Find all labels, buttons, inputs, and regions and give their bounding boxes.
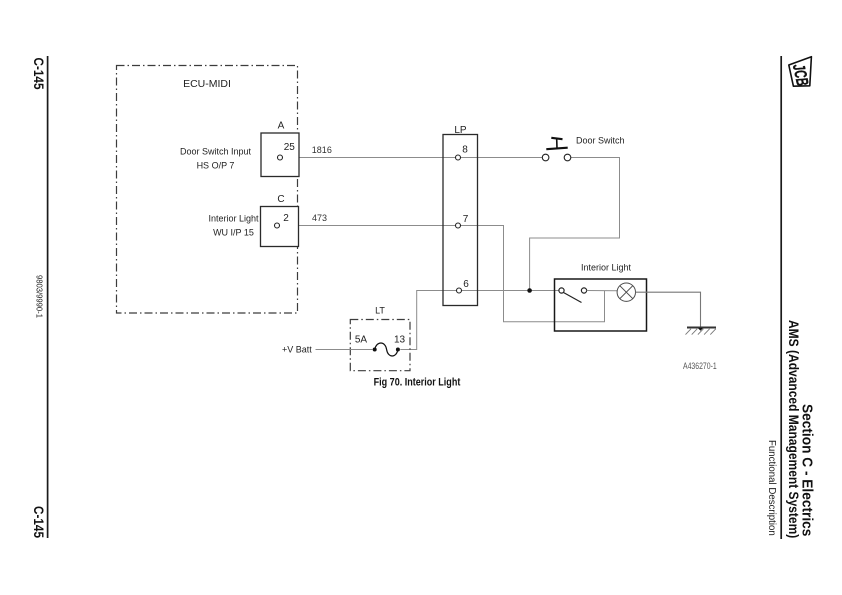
label Interior Light / WU I/P 15 bbox=[208, 214, 259, 238]
LP pin 6 terminal bbox=[457, 288, 462, 293]
wire door switch to junction (right, down, left, down) bbox=[530, 158, 620, 291]
svg-text:A: A bbox=[278, 121, 285, 132]
lamp bbox=[617, 283, 635, 301]
right border rule bbox=[780, 56, 782, 539]
svg-text:6: 6 bbox=[463, 279, 469, 290]
wire 1816 (pin 25 to LP pin 8) bbox=[283, 157, 455, 159]
label +V Batt bbox=[282, 345, 312, 355]
label C bbox=[277, 194, 284, 205]
svg-text:AMS (Advanced Management Syste: AMS (Advanced Management System) bbox=[786, 320, 802, 538]
pin label 8 bbox=[462, 145, 468, 156]
connector C box bbox=[261, 207, 299, 247]
svg-text:473: 473 bbox=[312, 213, 327, 223]
label Door Switch bbox=[576, 136, 625, 146]
pin 25 terminal bbox=[278, 155, 283, 160]
connector LP box bbox=[443, 135, 478, 306]
pin label 25 bbox=[284, 142, 296, 153]
svg-text:2: 2 bbox=[283, 213, 289, 224]
svg-text:C-145: C-145 bbox=[31, 58, 47, 90]
JCB logo bbox=[789, 57, 812, 88]
subtitle Functional Description bbox=[766, 440, 777, 536]
svg-text:Fig 70. Interior Light: Fig 70. Interior Light bbox=[374, 377, 461, 389]
Interior Light box bbox=[555, 279, 647, 331]
LT enclosure dash-dot box bbox=[350, 320, 410, 371]
fuse F 5A squiggle bbox=[373, 343, 400, 356]
LP pin 7 terminal bbox=[456, 223, 461, 228]
wire switch to lamp bbox=[587, 290, 618, 292]
wire label 1816 bbox=[312, 145, 332, 155]
interior light switch bbox=[559, 288, 587, 303]
svg-text:A436270-1: A436270-1 bbox=[683, 361, 717, 371]
svg-text:LT: LT bbox=[375, 306, 385, 316]
left border rule bbox=[47, 56, 49, 538]
label A bbox=[278, 121, 285, 132]
junction dot bbox=[527, 288, 532, 293]
section title Section C - Electrics bbox=[799, 404, 816, 536]
wire LP6 to interior light switch bbox=[462, 290, 559, 292]
label 5A bbox=[355, 334, 368, 345]
label ECU-MIDI bbox=[183, 78, 231, 90]
wire fuse pin13 up to LP pin 6 bbox=[400, 291, 456, 350]
page number C-145 bottom left bbox=[31, 506, 47, 538]
wire lamp to ground bbox=[636, 292, 701, 326]
svg-text:13: 13 bbox=[394, 334, 406, 345]
subtitle AMS (Advanced Management System) bbox=[786, 320, 802, 538]
door switch symbol bbox=[542, 138, 571, 161]
pin label 7 bbox=[463, 214, 469, 225]
pin label 6 bbox=[463, 279, 469, 290]
svg-text:8: 8 bbox=[462, 145, 468, 156]
publication number 9803/9990-1 bbox=[34, 275, 43, 319]
page number C-145 top left bbox=[31, 58, 47, 90]
svg-text:5A: 5A bbox=[355, 334, 368, 345]
wire LP8 to door switch bbox=[461, 157, 543, 159]
svg-text:Door Switch Input: Door Switch Input bbox=[180, 147, 252, 157]
label LT bbox=[375, 306, 385, 316]
svg-text:25: 25 bbox=[284, 142, 296, 153]
svg-text:C-145: C-145 bbox=[31, 506, 47, 538]
label Door Switch Input / HS O/P 7 bbox=[180, 147, 252, 171]
wire 473 (pin 2 to LP pin 7) bbox=[280, 225, 455, 227]
svg-text:7: 7 bbox=[463, 214, 469, 225]
pin label 2 bbox=[283, 213, 289, 224]
connector A box bbox=[261, 133, 299, 177]
svg-text:LP: LP bbox=[454, 125, 467, 136]
svg-text:Interior Light: Interior Light bbox=[208, 214, 259, 224]
caption Fig 70. Interior Light bbox=[374, 377, 461, 389]
svg-text:Door Switch: Door Switch bbox=[576, 136, 625, 146]
label Interior Light bbox=[581, 263, 632, 273]
ground symbol bbox=[686, 328, 717, 335]
svg-text:Interior Light: Interior Light bbox=[581, 263, 632, 273]
svg-text:ECU-MIDI: ECU-MIDI bbox=[183, 78, 231, 90]
pin 2 terminal bbox=[275, 223, 280, 228]
wire +V Batt to fuse bbox=[316, 349, 373, 351]
label 13 bbox=[394, 334, 406, 345]
svg-text:Functional Description: Functional Description bbox=[766, 440, 777, 536]
figure ref A436270-1 bbox=[683, 361, 717, 371]
label LP bbox=[454, 125, 467, 136]
svg-text:C: C bbox=[277, 194, 284, 205]
svg-text:9803/9990-1: 9803/9990-1 bbox=[34, 275, 43, 319]
svg-text:+V Batt: +V Batt bbox=[282, 345, 312, 355]
wire LP7 loop to lamp node bbox=[461, 226, 605, 322]
ECU-MIDI enclosure dash-dot box bbox=[117, 66, 298, 314]
svg-text:HS O/P 7: HS O/P 7 bbox=[197, 161, 235, 171]
svg-text:1816: 1816 bbox=[312, 145, 332, 155]
LP pin 8 terminal bbox=[456, 155, 461, 160]
svg-text:WU I/P 15: WU I/P 15 bbox=[213, 228, 254, 238]
wire label 473 bbox=[312, 213, 327, 223]
